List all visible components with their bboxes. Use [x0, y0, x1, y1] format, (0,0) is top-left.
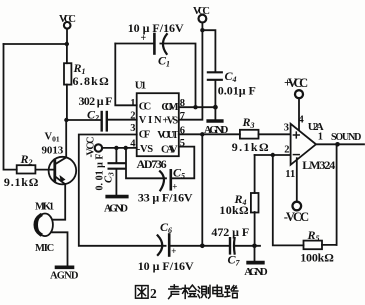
- svg-text:MK1: MK1: [35, 201, 54, 212]
- node: C1/COM junction: [193, 105, 197, 109]
- wire: C1 left branch down to U1 pin 1: [115, 44, 136, 106]
- svg-text:472 μ F: 472 μ F: [211, 225, 249, 239]
- resistor R3: [240, 130, 291, 139]
- svg-text:6: 6: [180, 126, 185, 137]
- svg-text:MIC: MIC: [35, 243, 54, 254]
- wire: C1 right to COM rail: [160, 44, 195, 108]
- svg-text:11: 11: [285, 169, 295, 180]
- svg-text:AGND: AGND: [244, 266, 268, 278]
- svg-text:2: 2: [284, 145, 289, 156]
- node: VOUT/C6/C7 junction: [200, 244, 205, 249]
- resistor R4: [251, 155, 259, 246]
- svg-text:1: 1: [130, 98, 135, 109]
- svg-text:100kΩ: 100kΩ: [300, 251, 334, 265]
- wire: C7 right stub: [235, 245, 260, 247]
- wire: U1 pin 5 CAV to C5: [172, 147, 194, 179]
- wire: R5 up to output node: [336, 144, 338, 245]
- svg-text:33 μ F/16V: 33 μ F/16V: [138, 191, 193, 205]
- svg-text:9.1kΩ: 9.1kΩ: [4, 175, 39, 189]
- svg-text:3: 3: [284, 123, 289, 134]
- wire: junction to C2: [66, 119, 100, 121]
- node: C4/pin8 junction: [213, 105, 218, 110]
- svg-text:C6: C6: [160, 220, 172, 235]
- svg-text:AGND: AGND: [204, 125, 229, 136]
- wire: left rail down to R2: [4, 44, 17, 170]
- wire: op-amp output to SOUND: [316, 143, 364, 145]
- svg-text:7: 7: [180, 111, 185, 122]
- wire: collector up to node A: [65, 120, 67, 157]
- svg-text:COM: COM: [161, 102, 178, 113]
- capacitor C3: [109, 148, 125, 195]
- svg-text:5: 5: [180, 138, 185, 149]
- wire: C6 to C7: [170, 245, 229, 247]
- svg-text:2: 2: [150, 286, 157, 301]
- svg-text:1: 1: [318, 132, 323, 143]
- node: R4/C7/AGND junction: [252, 244, 257, 249]
- power VCC (top middle): [199, 15, 207, 31]
- svg-text:+VCC: +VCC: [284, 76, 308, 90]
- svg-text:2: 2: [130, 111, 135, 122]
- svg-text:CC: CC: [139, 101, 151, 112]
- svg-text:0. 01 μ F: 0. 01 μ F: [95, 154, 106, 191]
- wire: C2 to U1 pin 2: [108, 119, 137, 121]
- caption glyph: dian: [213, 285, 223, 296]
- capacitor C6: [158, 235, 170, 256]
- node A: R1/C2/collector junction: [64, 118, 68, 122]
- capacitor C5: [160, 170, 171, 190]
- resistor R5: [304, 241, 337, 250]
- wire: emitter down and to MK1: [53, 184, 66, 220]
- svg-text:R3: R3: [242, 115, 255, 130]
- svg-text:C5: C5: [173, 166, 185, 181]
- svg-text:V01: V01: [45, 132, 60, 144]
- svg-text:C4: C4: [225, 69, 237, 84]
- wire: VOUT branch down to C6/C7 rail: [201, 134, 203, 246]
- op-amp U2A LM324: [291, 124, 316, 165]
- wire: VCC2 branch to C4: [202, 30, 215, 71]
- svg-text:U1: U1: [135, 80, 147, 92]
- wire: R4 junction down to ground: [254, 246, 256, 261]
- wire: C4 down to pin8 rail junction: [214, 81, 216, 120]
- caption glyph: tu (figure): [136, 286, 149, 299]
- svg-text:9013: 9013: [42, 145, 64, 157]
- power -VCC (left): [95, 144, 102, 151]
- svg-text:CAV: CAV: [161, 144, 178, 155]
- svg-text:SOUND: SOUND: [331, 132, 361, 143]
- svg-text:R5: R5: [307, 228, 320, 243]
- wire: U1 pin 4 -VS to -VCC terminal: [102, 147, 137, 149]
- caption glyph: lu: [225, 286, 238, 298]
- capacitor C7: [230, 238, 235, 254]
- svg-text:+: +: [141, 33, 147, 44]
- wire: op-amp pin 2 rail: [255, 154, 291, 156]
- capacitor C2: [102, 112, 107, 130]
- svg-text:AGND: AGND: [104, 204, 128, 215]
- wire: U1 pin 3 CF long loop down to C6: [79, 135, 166, 246]
- node: VCC2 junction: [200, 28, 204, 32]
- power -VCC (op-amp pin 11): [293, 158, 302, 210]
- wire: pin 2 down to R5: [273, 155, 304, 245]
- node: output/feedback junction: [335, 142, 340, 147]
- svg-text:4: 4: [299, 115, 305, 126]
- wire: U1 pin 6 VOUT to R3: [179, 133, 240, 135]
- svg-text:10kΩ: 10kΩ: [219, 203, 249, 217]
- ground AGND (under C4): [208, 119, 222, 123]
- svg-text:AGND: AGND: [50, 271, 79, 282]
- caption: figure 2 sound detection circuit: [136, 285, 238, 299]
- svg-text:LM324: LM324: [302, 158, 335, 172]
- ground AGND (under R4): [248, 261, 263, 265]
- capacitor C4: [208, 72, 222, 80]
- power VCC (top left): [64, 22, 71, 44]
- ground AGND (under C3): [107, 195, 127, 199]
- IC U1 AD736 box: [137, 93, 179, 156]
- svg-text:-VCC: -VCC: [284, 210, 309, 224]
- svg-text:C2: C2: [87, 107, 99, 122]
- svg-text:0.01μ F: 0.01μ F: [218, 84, 256, 98]
- resistor R1: [64, 44, 71, 120]
- svg-text:4: 4: [130, 139, 136, 150]
- svg-text:VIN: VIN: [139, 115, 162, 126]
- power +VCC (op-amp pin 4): [295, 90, 303, 130]
- transistor Q1 9013: [49, 157, 77, 185]
- svg-text:9.1kΩ: 9.1kΩ: [232, 140, 269, 154]
- node: C5 tap on -VS rail: [124, 146, 128, 150]
- wire: U1 pin 8 COM rail: [179, 106, 216, 108]
- svg-text:+VS: +VS: [162, 116, 178, 127]
- node junction at VCC/R1: [65, 42, 69, 46]
- microphone MK1: [35, 214, 53, 237]
- wire: VCC node to left rail: [4, 43, 67, 45]
- svg-text:R2: R2: [20, 152, 33, 167]
- svg-text:VCC: VCC: [193, 6, 210, 17]
- wire: VCC2 rail down to U1 pin 7: [179, 30, 203, 120]
- resistor R2: [17, 165, 54, 173]
- svg-text:VOUT: VOUT: [157, 130, 179, 141]
- svg-text:+: +: [171, 246, 176, 256]
- svg-text:6.8kΩ: 6.8kΩ: [73, 74, 110, 88]
- svg-text:C1: C1: [158, 54, 170, 69]
- svg-text:10 μ F/16V: 10 μ F/16V: [128, 21, 184, 35]
- node: VOUT branch junction: [200, 132, 204, 136]
- svg-text:302 μ F: 302 μ F: [79, 94, 113, 108]
- svg-text:C7: C7: [228, 253, 241, 268]
- ground AGND (under MIC): [57, 265, 73, 269]
- caption glyph: jian: [182, 285, 196, 298]
- node: C3 tap on -VS rail: [114, 146, 118, 150]
- svg-text:VCC: VCC: [59, 14, 76, 25]
- wire: C1 top rail: [115, 43, 153, 45]
- svg-text:CF: CF: [139, 130, 150, 141]
- svg-text:AD736: AD736: [137, 157, 167, 171]
- svg-text:-VS: -VS: [137, 144, 153, 155]
- svg-text:3: 3: [130, 123, 135, 134]
- svg-text:10 μ F/16V: 10 μ F/16V: [138, 259, 194, 273]
- caption glyph: ce: [198, 285, 210, 298]
- capacitor C1: [154, 34, 166, 54]
- svg-text:8: 8: [180, 98, 185, 109]
- caption glyph: sheng: [169, 285, 182, 299]
- wire: C5 left to -VS rail: [126, 148, 166, 178]
- wire: MK1 lower terminal to ground: [52, 232, 67, 265]
- node: feedback tap on pin 2: [271, 153, 275, 157]
